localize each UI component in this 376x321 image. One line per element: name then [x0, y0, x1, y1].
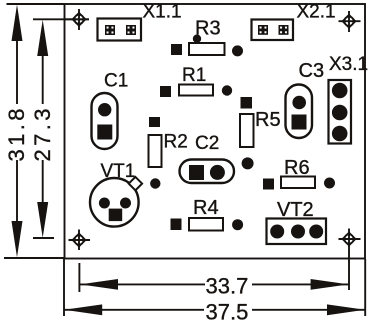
- transistor VT1: [90, 161, 142, 227]
- svg-text:R2: R2: [164, 132, 188, 153]
- svg-text:R3: R3: [195, 18, 221, 40]
- connector X2.1: [252, 1, 336, 40]
- fiducial crosshair top-left: [64, 9, 90, 30]
- resistor R6: [263, 157, 335, 190]
- board outline: [65, 4, 366, 259]
- dimension 31.8: [4, 4, 65, 258]
- svg-text:VT2: VT2: [277, 199, 314, 221]
- svg-text:VT1: VT1: [101, 161, 136, 182]
- svg-text:27.3: 27.3: [30, 105, 55, 161]
- fiducial crosshair bottom-left: [69, 230, 91, 251]
- svg-text:X2.1: X2.1: [297, 1, 336, 22]
- resistor R2: [149, 117, 188, 189]
- dimension 33.7: [79, 249, 349, 299]
- resistor R3: [171, 18, 243, 57]
- resistor R4: [171, 197, 244, 231]
- connector X1.1: [98, 1, 182, 40]
- capacitor C2: [180, 133, 235, 183]
- svg-text:R1: R1: [182, 65, 206, 86]
- svg-text:C2: C2: [195, 133, 219, 154]
- svg-text:31.8: 31.8: [4, 105, 29, 161]
- capacitor C1: [92, 71, 129, 150]
- svg-text:R5: R5: [255, 109, 281, 131]
- dimension 37.5: [64, 259, 365, 321]
- resistor R5: [240, 97, 281, 169]
- transistor VT2: [267, 199, 327, 244]
- svg-text:33.7: 33.7: [206, 274, 249, 299]
- connector X3.1: [329, 54, 369, 144]
- resistor R1: [160, 65, 232, 97]
- fiducial crosshair bottom-right: [339, 229, 361, 250]
- svg-text:C3: C3: [299, 60, 325, 82]
- capacitor C3: [286, 60, 325, 138]
- dimension 27.3: [30, 19, 89, 238]
- fiducial crosshair top-right: [339, 11, 361, 32]
- svg-text:X3.1: X3.1: [329, 54, 368, 75]
- svg-text:C1: C1: [104, 71, 128, 92]
- svg-text:37.5: 37.5: [206, 300, 249, 321]
- svg-text:R6: R6: [284, 157, 310, 179]
- svg-text:X1.1: X1.1: [143, 1, 182, 22]
- svg-text:R4: R4: [193, 197, 219, 219]
